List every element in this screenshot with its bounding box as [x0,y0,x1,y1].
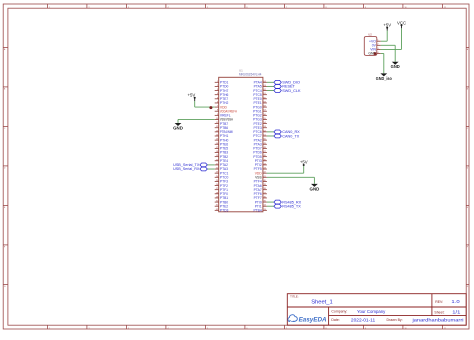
svg-text:PTB1: PTB1 [220,196,228,200]
svg-text:B: B [4,89,6,91]
svg-text:VDD: VDD [220,105,228,109]
svg-text:PTA7: PTA7 [254,188,262,192]
svg-text:CAN0_TX: CAN0_TX [282,134,300,138]
svg-text:U1: U1 [239,69,243,73]
svg-text:Drawn By:: Drawn By: [387,318,403,322]
svg-text:9: 9 [365,328,366,330]
svg-text:PTI0: PTI0 [255,200,262,204]
svg-text:PTF6: PTF6 [254,192,262,196]
svg-text:+VO: +VO [369,39,376,43]
svg-text:EasyEDA: EasyEDA [299,316,327,323]
svg-text:PTG3: PTG3 [253,118,262,122]
svg-text:PTC6: PTC6 [253,130,262,134]
svg-text:PTA2: PTA2 [254,138,262,142]
svg-text:PTH0: PTH0 [220,138,229,142]
svg-text:Date:: Date: [331,318,339,322]
svg-text:C: C [4,128,6,130]
svg-text:PTE7: PTE7 [220,97,228,101]
svg-text:PTB6: PTB6 [220,126,228,130]
svg-text:PTA2: PTA2 [220,163,228,167]
svg-text:PTC5: PTC5 [253,93,262,97]
svg-text:janardhanbabumarri: janardhanbabumarri [411,317,463,322]
svg-text:Your Company: Your Company [357,309,386,314]
svg-text:11: 11 [444,328,446,330]
svg-text:PTG2: PTG2 [253,114,262,118]
svg-text:PTF1: PTF1 [220,188,228,192]
svg-text:VREFL: VREFL [220,114,231,118]
svg-text:PTF4: PTF4 [254,180,262,184]
svg-text:4: 4 [168,7,169,9]
svg-text:PTC4: PTC4 [253,89,262,93]
svg-text:PTF5: PTF5 [254,167,262,171]
svg-text:VIN: VIN [370,48,376,52]
svg-text:PTB0: PTB0 [220,200,228,204]
svg-text:PTE0: PTE0 [253,97,261,101]
svg-text:PTB2: PTB2 [220,155,228,159]
svg-text:1: 1 [49,328,50,330]
svg-text:2022-01-11: 2022-01-11 [351,317,376,322]
svg-text:USB_Serial_TX: USB_Serial_TX [173,163,200,167]
svg-text:PTI2: PTI2 [255,163,262,167]
svg-text:PTH7: PTH7 [220,89,229,93]
svg-text:PTE4: PTE4 [220,159,228,163]
svg-text:PTF7: PTF7 [254,196,262,200]
svg-text:U2: U2 [368,33,372,37]
svg-text:D: D [467,168,469,170]
svg-text:PTE5: PTE5 [220,147,228,151]
svg-text:RS485_TX: RS485_TX [282,205,301,209]
svg-text:B: B [467,89,469,91]
svg-text:PTC0: PTC0 [220,175,229,179]
svg-text:USB_Serial_RX: USB_Serial_RX [173,167,200,171]
svg-text:RESET: RESET [282,85,295,89]
svg-text:6: 6 [247,328,248,330]
svg-text:PTB4: PTB4 [253,209,261,213]
svg-text:PTE2: PTE2 [220,204,228,208]
svg-text:CAN0_RX: CAN0_RX [282,130,300,134]
svg-text:GND_iso: GND_iso [376,76,392,81]
svg-text:PTB7: PTB7 [220,122,228,126]
svg-text:1: 1 [49,7,50,9]
svg-text:Sheet:: Sheet: [434,310,444,314]
svg-text:7: 7 [286,7,287,9]
svg-text:MKE06Z64VLH4: MKE06Z64VLH4 [239,73,262,77]
svg-text:+5V: +5V [383,22,391,27]
svg-text:PTI3: PTI3 [255,159,262,163]
svg-text:PTH2: PTH2 [220,101,229,105]
svg-text:GND: GND [173,125,183,130]
svg-text:VCC: VCC [397,20,406,25]
svg-text:PTD7: PTD7 [253,147,262,151]
svg-text:GND: GND [391,64,400,69]
svg-text:PTB4/NMI: PTB4/NMI [220,130,233,134]
svg-text:E: E [4,207,6,209]
svg-text:PTD6: PTD6 [253,151,262,155]
svg-text:2: 2 [89,7,90,9]
svg-text:PTE3: PTE3 [253,126,261,130]
svg-text:6: 6 [247,7,248,9]
svg-text:G: G [467,286,469,288]
svg-text:G: G [4,286,6,288]
svg-text:TITLE:: TITLE: [290,295,299,299]
svg-text:+5V: +5V [300,159,308,164]
svg-text:VSS: VSS [255,175,262,179]
svg-text:PTD3: PTD3 [220,209,229,213]
svg-text:10: 10 [405,328,407,330]
svg-text:5: 5 [207,328,208,330]
svg-text:0V: 0V [372,44,377,48]
svg-text:VDDA/VREFH: VDDA/VREFH [220,109,237,113]
svg-text:GND: GND [310,186,320,191]
svg-text:F: F [4,247,6,249]
svg-text:PTH1: PTH1 [220,134,229,138]
svg-text:11: 11 [444,7,446,9]
svg-text:E: E [467,207,469,209]
svg-text:PTC1: PTC1 [220,171,229,175]
svg-text:PTD0: PTD0 [220,85,229,89]
svg-text:PTG0: PTG0 [253,105,262,109]
svg-text:Sheet_1: Sheet_1 [311,299,333,305]
svg-text:PTE1: PTE1 [253,101,261,105]
svg-text:VDD: VDD [255,171,263,175]
svg-text:7: 7 [286,328,287,330]
svg-text:PTB3: PTB3 [220,151,228,155]
svg-text:REV:: REV: [435,300,443,304]
svg-text:1.0: 1.0 [451,299,460,304]
svg-text:D: D [4,168,6,170]
svg-text:PTH6: PTH6 [220,93,229,97]
svg-text:PTF3: PTF3 [220,180,228,184]
svg-text:+5V: +5V [188,92,196,97]
svg-text:PTD5: PTD5 [253,155,262,159]
svg-text:PTC7: PTC7 [253,134,262,138]
svg-text:4: 4 [168,328,169,330]
svg-text:5: 5 [207,7,208,9]
svg-text:2: 2 [89,328,90,330]
svg-text:PTA5: PTA5 [254,85,262,89]
svg-text:PTI1: PTI1 [255,204,262,208]
svg-text:PTA3: PTA3 [254,142,262,146]
svg-text:PTA6: PTA6 [254,184,262,188]
svg-text:1/1: 1/1 [452,309,461,314]
svg-text:PTG1: PTG1 [253,109,262,113]
svg-text:3: 3 [128,7,129,9]
svg-text:SWD_DIO: SWD_DIO [282,81,300,85]
svg-text:F: F [467,247,469,249]
svg-text:PTF0: PTF0 [220,192,228,196]
svg-text:10: 10 [405,7,407,9]
svg-text:C: C [467,128,469,130]
svg-text:PTA4: PTA4 [254,81,262,85]
svg-text:8: 8 [326,328,327,330]
svg-text:PTE2: PTE2 [253,122,261,126]
svg-text:SWD_CLK: SWD_CLK [282,89,301,93]
svg-text:PTF2: PTF2 [220,184,228,188]
svg-text:PTD1: PTD1 [220,81,229,85]
svg-text:VSS/VSSA: VSS/VSSA [220,118,234,122]
svg-text:PTE6: PTE6 [220,142,228,146]
svg-text:PTA3: PTA3 [220,167,228,171]
svg-text:3: 3 [128,328,129,330]
svg-text:Company:: Company: [331,310,347,314]
svg-text:9: 9 [365,7,366,9]
svg-text:A: A [467,48,469,51]
svg-text:A: A [4,48,6,51]
svg-text:RS485_RX: RS485_RX [282,200,301,204]
svg-text:8: 8 [326,7,327,9]
